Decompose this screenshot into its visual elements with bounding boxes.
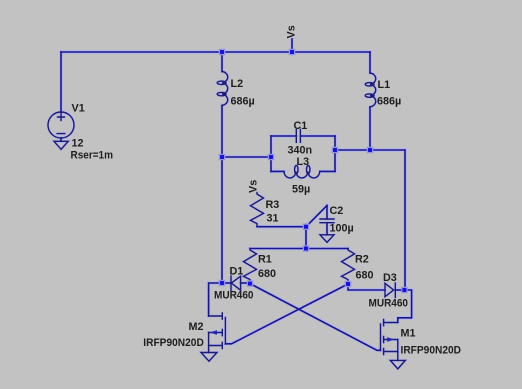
svg-text:R1: R1 [258, 254, 272, 266]
node D3 cathode [402, 287, 407, 292]
svg-text:M2: M2 [189, 321, 204, 333]
svg-text:L2: L2 [231, 78, 244, 90]
node top rail at Vs [289, 49, 294, 54]
svg-text:Vs: Vs [286, 25, 298, 38]
svg-text:686µ: 686µ [377, 96, 401, 108]
node D1 anode R1 [247, 281, 252, 286]
svg-text:686µ: 686µ [231, 96, 255, 108]
svg-text:M1: M1 [401, 328, 416, 340]
node mid rail at L2 bottom [219, 154, 224, 159]
svg-text:R2: R2 [355, 254, 369, 266]
svg-text:Vs: Vs [248, 180, 260, 193]
svg-text:R3: R3 [266, 199, 280, 211]
svg-text:V1: V1 [72, 103, 85, 115]
svg-text:Rser=1m: Rser=1m [71, 150, 114, 162]
svg-text:59µ: 59µ [292, 184, 310, 196]
transistor M1 body arrow [387, 337, 394, 342]
node L1 bottom [367, 147, 372, 152]
node gate rail center [303, 246, 308, 251]
svg-text:L3: L3 [297, 156, 310, 168]
node top rail at L2 [219, 49, 224, 54]
svg-text:100µ: 100µ [330, 223, 354, 235]
node tank right [332, 147, 337, 152]
svg-text:340n: 340n [288, 145, 313, 157]
transistor M2 body arrow [210, 330, 217, 335]
svg-text:MUR460: MUR460 [369, 298, 409, 310]
node D1 cathode [219, 280, 224, 285]
svg-text:C1: C1 [294, 120, 308, 132]
svg-text:31: 31 [267, 213, 279, 225]
svg-text:680: 680 [356, 270, 374, 282]
svg-text:IRFP90N20D: IRFP90N20D [143, 337, 204, 349]
node tank left [268, 154, 273, 159]
svg-text:D3: D3 [383, 272, 397, 284]
node R2 bottom [345, 281, 350, 286]
svg-text:680: 680 [258, 268, 276, 280]
svg-text:12: 12 [72, 138, 84, 150]
node R3 C2 junction [303, 224, 308, 229]
svg-text:D1: D1 [230, 266, 244, 278]
svg-text:MUR460: MUR460 [214, 290, 254, 302]
svg-text:L1: L1 [378, 79, 391, 91]
svg-text:C2: C2 [330, 205, 344, 217]
svg-text:IRFP90N20D: IRFP90N20D [401, 345, 462, 357]
